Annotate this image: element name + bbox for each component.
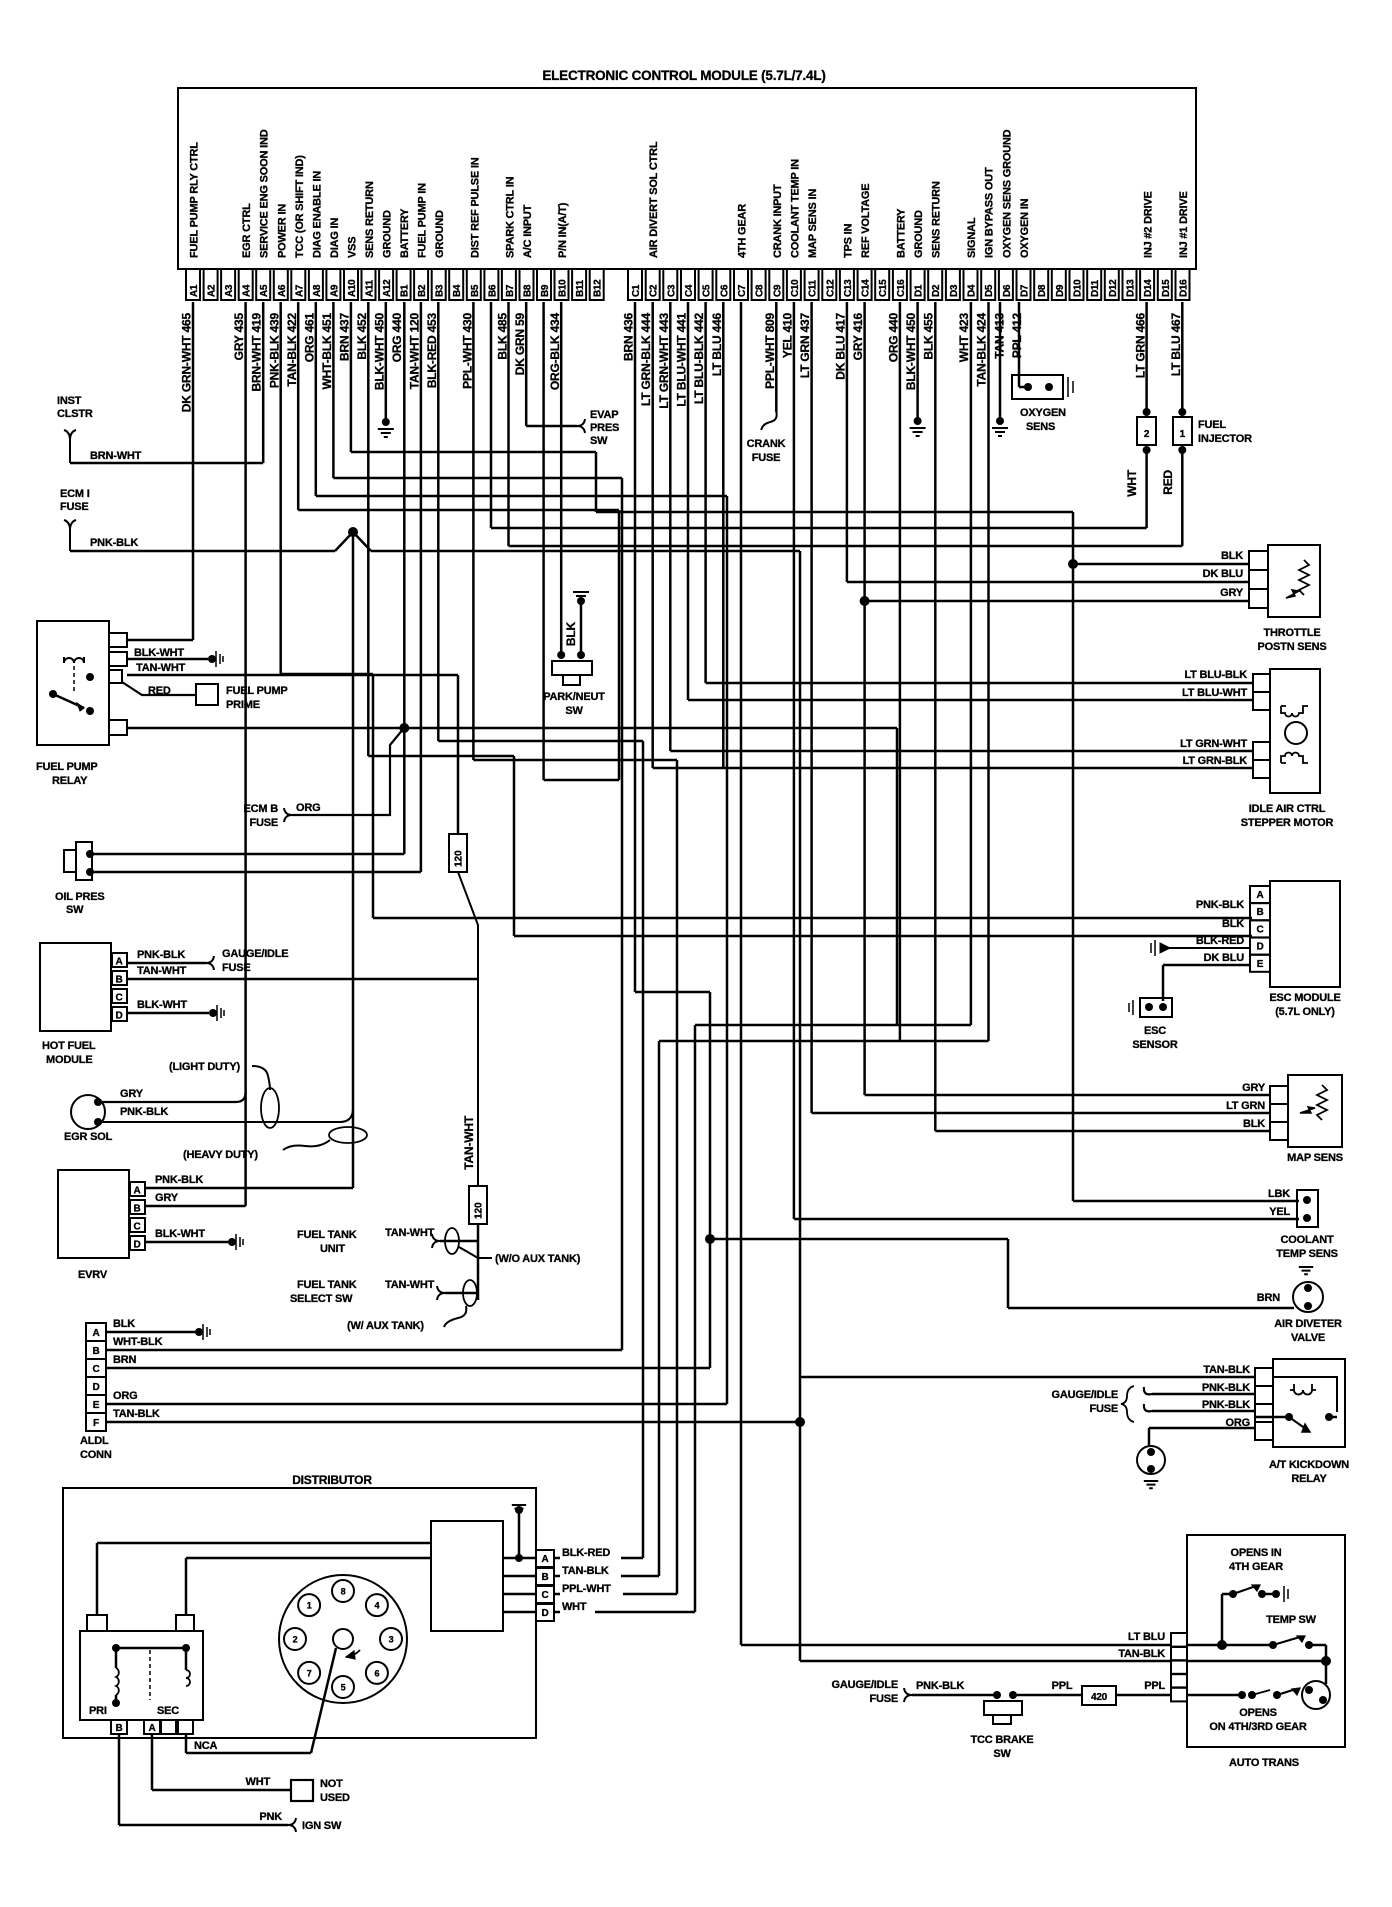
wire PNK-BLK from ECM I FUSE xyxy=(70,550,335,553)
node PNK-BLK junction xyxy=(348,527,358,537)
svg-text:C2: C2 xyxy=(649,284,660,297)
EVAP bracket xyxy=(577,419,585,433)
coolant temp sensor xyxy=(1297,1190,1318,1227)
svg-text:LT BLU-WHT 441: LT BLU-WHT 441 xyxy=(675,312,689,406)
svg-text:C: C xyxy=(134,1222,141,1233)
coil extra pins xyxy=(161,1720,176,1734)
svg-text:BRN 437: BRN 437 xyxy=(338,312,352,360)
distributor pins A-D with labels xyxy=(536,1550,554,1567)
4th3rd switch circle xyxy=(1302,1681,1330,1709)
svg-text:A4: A4 xyxy=(242,284,253,297)
wire relay pin1 to A1 xyxy=(127,639,193,642)
svg-text:BLK: BLK xyxy=(1222,918,1244,930)
svg-text:C7: C7 xyxy=(737,284,748,297)
svg-text:GROUND: GROUND xyxy=(913,210,925,258)
wire A8 net to ALDL E xyxy=(315,302,318,496)
ALDL connector J1 xyxy=(86,1323,106,1341)
IAC coil top xyxy=(1281,706,1308,717)
svg-text:DIAG ENABLE IN: DIAG ENABLE IN xyxy=(311,171,323,258)
svg-text:C: C xyxy=(1256,924,1263,935)
svg-text:GROUND: GROUND xyxy=(382,210,394,258)
svg-text:LT GRN-WHT: LT GRN-WHT xyxy=(1180,738,1247,750)
not used connector xyxy=(291,1780,313,1801)
wire B6 stub xyxy=(490,302,493,528)
svg-text:GRY: GRY xyxy=(1242,1082,1266,1094)
svg-text:B9: B9 xyxy=(540,284,551,297)
wire C13 TPS DK BLU xyxy=(846,302,849,582)
svg-text:ESC MODULE: ESC MODULE xyxy=(1269,992,1340,1004)
svg-text:GAUGE/IDLE: GAUGE/IDLE xyxy=(832,1679,898,1691)
svg-text:BATTERY: BATTERY xyxy=(895,208,907,258)
wire D7 to oxygen sensor xyxy=(1018,302,1021,387)
svg-text:D1: D1 xyxy=(914,284,925,297)
svg-text:BATTERY: BATTERY xyxy=(399,208,411,258)
wire B7 stub xyxy=(507,302,510,546)
svg-text:B11: B11 xyxy=(575,279,586,297)
svg-text:C12: C12 xyxy=(825,279,836,297)
wire w/o aux diag xyxy=(459,1247,492,1258)
svg-text:TAN-WHT: TAN-WHT xyxy=(462,1115,476,1170)
svg-text:D: D xyxy=(134,1240,141,1251)
wire hotfuel D to ground xyxy=(127,1012,209,1015)
svg-text:SENS RETURN: SENS RETURN xyxy=(931,181,943,258)
svg-text:LT BLU 467: LT BLU 467 xyxy=(1169,312,1183,376)
wire A9 DIAG net to ALDL B xyxy=(332,302,335,478)
svg-text:PNK-BLK: PNK-BLK xyxy=(137,949,185,961)
svg-text:LT BLU-BLK 442: LT BLU-BLK 442 xyxy=(692,312,706,404)
svg-text:1: 1 xyxy=(1180,429,1186,440)
svg-text:COOLANT TEMP IN: COOLANT TEMP IN xyxy=(789,159,801,258)
wire relay pin4 battery feed xyxy=(127,727,897,730)
fuel pump relay coil xyxy=(64,657,84,663)
svg-text:E: E xyxy=(93,1400,100,1411)
svg-text:C9: C9 xyxy=(772,284,783,297)
svg-text:POWER IN: POWER IN xyxy=(276,204,288,258)
kd ground connector xyxy=(1137,1446,1165,1474)
svg-text:TAN-BLK: TAN-BLK xyxy=(1203,1364,1250,1376)
wire relay pin2 to ground xyxy=(127,658,208,661)
svg-text:D2: D2 xyxy=(931,284,942,297)
wire kickdown TAN-BLK row xyxy=(800,1376,1255,1379)
wire TPS BLK row xyxy=(1073,563,1249,566)
wire relay pin3 TAN-WHT xyxy=(127,674,458,677)
svg-text:BLK-WHT: BLK-WHT xyxy=(137,999,187,1011)
svg-text:BLK-WHT 450: BLK-WHT 450 xyxy=(373,312,387,390)
svg-text:ORG: ORG xyxy=(113,1390,137,1402)
node TPS BLK junction xyxy=(1068,559,1078,569)
svg-text:ORG 440: ORG 440 xyxy=(886,312,900,362)
wire kd ORG xyxy=(1149,1427,1255,1430)
svg-text:D15: D15 xyxy=(1161,279,1172,297)
svg-text:PNK-BLK: PNK-BLK xyxy=(90,537,138,549)
svg-text:IDLE AIR CTRL: IDLE AIR CTRL xyxy=(1249,803,1326,815)
svg-text:D9: D9 xyxy=(1055,284,1066,297)
svg-text:ECM B: ECM B xyxy=(244,803,279,815)
MAP resistor xyxy=(1317,1085,1327,1120)
wire EVRV B GRY xyxy=(145,1205,246,1208)
svg-text:C: C xyxy=(541,1590,548,1601)
wire EGR PNK-BLK xyxy=(98,1110,353,1122)
svg-text:OXYGEN IN: OXYGEN IN xyxy=(1019,198,1031,258)
wire coil sec up xyxy=(185,1558,188,1615)
svg-text:BLK-RED: BLK-RED xyxy=(1196,935,1244,947)
svg-text:FUEL TANK: FUEL TANK xyxy=(297,1229,357,1241)
svg-text:WHT: WHT xyxy=(246,1776,271,1788)
svg-text:SELECT SW: SELECT SW xyxy=(290,1293,353,1305)
ignition coil box xyxy=(80,1631,203,1720)
wire D4 jog to distributor D xyxy=(970,302,973,1025)
wire PNK-BLK vertical to EVRV xyxy=(352,532,355,1188)
svg-text:B4: B4 xyxy=(452,284,463,297)
svg-text:PNK: PNK xyxy=(259,1811,282,1823)
svg-text:ORG: ORG xyxy=(296,802,320,814)
svg-text:C5: C5 xyxy=(702,284,713,297)
svg-text:NCA: NCA xyxy=(194,1740,217,1752)
svg-text:RELAY: RELAY xyxy=(1291,1473,1327,1485)
svg-text:D16: D16 xyxy=(1179,279,1190,297)
IAC coil bottom xyxy=(1281,753,1308,763)
svg-text:FUEL PUMP: FUEL PUMP xyxy=(226,685,288,697)
fuse 120 lower xyxy=(469,1186,487,1224)
IAC connector cells xyxy=(1253,674,1270,692)
wire A6 net to ESC B xyxy=(281,673,373,676)
svg-text:PNK-BLK: PNK-BLK xyxy=(1196,899,1244,911)
svg-text:A8: A8 xyxy=(312,284,323,297)
wire D14 to injector 2 xyxy=(1145,302,1148,412)
throttle sensor connector xyxy=(1249,551,1268,570)
distributor cap circle xyxy=(279,1575,407,1703)
wire A10 VSS net xyxy=(350,302,353,452)
wire C9 to CRANK FUSE xyxy=(775,302,778,412)
svg-text:TAN-WHT: TAN-WHT xyxy=(136,662,186,674)
svg-text:A: A xyxy=(541,1554,548,1565)
svg-text:LT GRN 437: LT GRN 437 xyxy=(798,312,812,378)
svg-text:C4: C4 xyxy=(684,284,695,297)
wire to fuel tank unit xyxy=(477,1224,480,1300)
svg-text:PPL 412: PPL 412 xyxy=(1010,312,1024,358)
svg-text:FUEL PUMP IN: FUEL PUMP IN xyxy=(417,183,429,258)
svg-text:(LIGHT DUTY): (LIGHT DUTY) xyxy=(169,1061,240,1073)
svg-text:IGN SW: IGN SW xyxy=(302,1820,342,1832)
wire tcc pnk-blk xyxy=(912,1694,995,1697)
svg-text:D: D xyxy=(92,1382,99,1393)
svg-text:LT BLU: LT BLU xyxy=(1128,1631,1165,1643)
svg-text:PNK-BLK: PNK-BLK xyxy=(916,1680,964,1692)
svg-text:IGN BYPASS OUT: IGN BYPASS OUT xyxy=(984,167,996,258)
wire coolant LBK row xyxy=(1073,1200,1299,1203)
svg-text:EVAP: EVAP xyxy=(590,409,618,421)
svg-text:SERVICE ENG SOON IND: SERVICE ENG SOON IND xyxy=(259,129,271,258)
svg-text:SENSOR: SENSOR xyxy=(1132,1039,1178,1051)
svg-text:YEL 410: YEL 410 xyxy=(780,312,794,358)
throttle sensor resistor xyxy=(1299,560,1309,595)
svg-text:D5: D5 xyxy=(984,284,995,297)
wire dist C out xyxy=(623,1593,677,1596)
svg-text:TPS IN: TPS IN xyxy=(842,223,854,258)
svg-text:MAP SENS IN: MAP SENS IN xyxy=(807,189,819,258)
svg-text:EGR CTRL: EGR CTRL xyxy=(241,203,253,258)
svg-text:REF VOLTAGE: REF VOLTAGE xyxy=(860,184,872,258)
svg-text:TEMP SW: TEMP SW xyxy=(1266,1614,1317,1626)
ign sw bracket xyxy=(288,1818,296,1832)
svg-text:C11: C11 xyxy=(808,279,819,297)
heavy duty squiggle xyxy=(283,1140,330,1150)
wire B10 to park neut sw xyxy=(560,302,563,655)
temp sw row xyxy=(1217,1640,1227,1650)
wire auto trans TAN-BLK row xyxy=(800,1660,1171,1663)
svg-text:A: A xyxy=(92,1328,99,1339)
svg-text:TAN-BLK: TAN-BLK xyxy=(562,1565,609,1577)
svg-text:120: 120 xyxy=(474,1202,485,1219)
svg-text:A1: A1 xyxy=(189,284,200,297)
svg-text:WHT: WHT xyxy=(1125,469,1139,497)
ftu oval xyxy=(445,1228,459,1254)
svg-text:MODULE: MODULE xyxy=(46,1054,92,1066)
svg-text:DK GRN-WHT 465: DK GRN-WHT 465 xyxy=(180,312,194,412)
svg-text:BLK-WHT: BLK-WHT xyxy=(155,1228,205,1240)
svg-text:TAN-WHT: TAN-WHT xyxy=(137,965,187,977)
EVRV pins xyxy=(130,1182,145,1196)
svg-text:BLK-WHT: BLK-WHT xyxy=(134,647,184,659)
MAP sensor box xyxy=(1288,1075,1342,1147)
svg-text:CRANK: CRANK xyxy=(747,438,786,450)
svg-text:OPENS: OPENS xyxy=(1239,1707,1277,1719)
wire C7 LT BLU to auto trans xyxy=(740,302,743,1645)
svg-text:D: D xyxy=(1256,942,1263,953)
svg-text:BLK: BLK xyxy=(1221,550,1243,562)
wire fuel tank unit xyxy=(440,1240,478,1243)
w aux squiggle xyxy=(444,1306,466,1327)
svg-text:ECM I: ECM I xyxy=(60,488,90,500)
fuel injector 2 xyxy=(1137,417,1156,445)
svg-text:420: 420 xyxy=(1091,1692,1108,1703)
svg-text:AIR DIVERT SOL CTRL: AIR DIVERT SOL CTRL xyxy=(648,141,660,258)
svg-text:FUEL PUMP RLY CTRL: FUEL PUMP RLY CTRL xyxy=(189,142,201,258)
fuel pump relay K1 box xyxy=(37,621,109,745)
svg-text:P/N IN(A/T): P/N IN(A/T) xyxy=(557,202,569,258)
svg-text:B: B xyxy=(92,1346,99,1357)
svg-text:B12: B12 xyxy=(593,279,604,297)
svg-text:A6: A6 xyxy=(277,284,288,297)
svg-text:HOT FUEL: HOT FUEL xyxy=(42,1040,96,1052)
svg-text:GAUGE/IDLE: GAUGE/IDLE xyxy=(1052,1389,1118,1401)
svg-text:SENS RETURN: SENS RETURN xyxy=(364,181,376,258)
wire relay feed drop xyxy=(896,728,899,1025)
svg-text:INJ #2 DRIVE: INJ #2 DRIVE xyxy=(1143,191,1155,258)
wire A4 GRY 435 down xyxy=(244,302,247,1206)
svg-text:FUSE: FUSE xyxy=(1089,1403,1118,1415)
svg-text:B: B xyxy=(115,1723,122,1734)
svg-text:WHT 423: WHT 423 xyxy=(957,312,971,362)
svg-text:B3: B3 xyxy=(435,284,446,297)
svg-text:BRN 436: BRN 436 xyxy=(622,312,636,360)
svg-text:TEMP SENS: TEMP SENS xyxy=(1276,1248,1338,1260)
svg-text:LBK: LBK xyxy=(1268,1188,1290,1200)
svg-text:BLK 452: BLK 452 xyxy=(355,312,369,359)
fuse 420 xyxy=(1082,1686,1116,1705)
fuel tank unit bracket xyxy=(432,1234,440,1248)
svg-text:E: E xyxy=(1257,959,1264,970)
wire PNK-BLK drop 800 xyxy=(799,551,802,1661)
wire D2 MAP BLK xyxy=(934,302,937,1131)
wire EGR GRY xyxy=(98,1092,246,1102)
svg-text:DISTRIBUTOR: DISTRIBUTOR xyxy=(292,1473,372,1487)
ESC sensor xyxy=(1140,998,1172,1017)
wire D1 ground stub xyxy=(916,302,919,418)
kd relay contacts xyxy=(1285,1413,1293,1421)
svg-text:B: B xyxy=(1256,907,1263,918)
svg-text:C16: C16 xyxy=(896,279,907,297)
distributor box xyxy=(63,1488,536,1738)
wire A5 SES to INST CLSTR xyxy=(70,462,263,465)
hot fuel module box xyxy=(40,943,111,1031)
svg-text:PRI: PRI xyxy=(89,1705,107,1717)
node C1 air diverter junction xyxy=(705,1234,715,1244)
coil secondary winding xyxy=(186,1670,190,1686)
svg-text:WHT-BLK 451: WHT-BLK 451 xyxy=(320,312,334,389)
svg-text:A/C INPUT: A/C INPUT xyxy=(522,204,534,258)
wire C3 IAC LT GRN-WHT xyxy=(669,302,672,751)
svg-text:TAN-BLK: TAN-BLK xyxy=(1118,1648,1165,1660)
svg-text:LT BLU-WHT: LT BLU-WHT xyxy=(1182,687,1247,699)
wire hotfuel A to gauge fuse xyxy=(127,962,206,965)
svg-text:ALDL: ALDL xyxy=(80,1435,109,1447)
svg-text:ORG 461: ORG 461 xyxy=(302,312,316,362)
svg-text:TAN-WHT: TAN-WHT xyxy=(385,1279,435,1291)
svg-text:SIGNAL: SIGNAL xyxy=(966,217,978,258)
air diverter valve xyxy=(1293,1282,1323,1312)
svg-text:TAN-WHT 120: TAN-WHT 120 xyxy=(408,312,422,389)
svg-text:CRANK INPUT: CRANK INPUT xyxy=(772,184,784,258)
svg-text:WHT-BLK: WHT-BLK xyxy=(113,1336,163,1348)
wire B3 jog to distributor A xyxy=(437,302,440,741)
throttle sensor box xyxy=(1268,545,1320,617)
wire D16 to injector 1 xyxy=(1181,302,1184,412)
wire C5 IAC LT BLU-BLK xyxy=(704,302,707,683)
svg-text:DIAG IN: DIAG IN xyxy=(329,218,341,258)
svg-text:DIST REF PULSE IN: DIST REF PULSE IN xyxy=(469,157,481,258)
svg-text:INJECTOR: INJECTOR xyxy=(1198,433,1252,445)
ECM B FUSE bracket xyxy=(284,808,292,822)
light duty squiggle xyxy=(252,1066,270,1090)
svg-text:TAN-WHT: TAN-WHT xyxy=(385,1227,435,1239)
svg-text:D12: D12 xyxy=(1108,279,1119,297)
svg-text:D4: D4 xyxy=(967,284,978,297)
svg-text:(W/O AUX TANK): (W/O AUX TANK) xyxy=(495,1253,581,1265)
coil pin A xyxy=(144,1720,160,1734)
svg-text:TAN-BLK: TAN-BLK xyxy=(113,1408,160,1420)
svg-text:DK BLU 417: DK BLU 417 xyxy=(833,312,847,379)
svg-text:BLK: BLK xyxy=(1243,1118,1265,1130)
svg-text:D13: D13 xyxy=(1126,279,1137,297)
svg-text:A12: A12 xyxy=(382,279,393,297)
svg-text:COOLANT: COOLANT xyxy=(1281,1234,1334,1246)
IAC motor box xyxy=(1270,669,1320,793)
svg-text:BRN-WHT: BRN-WHT xyxy=(90,450,142,462)
svg-text:PARK/NEUT: PARK/NEUT xyxy=(543,691,605,703)
svg-text:FUSE: FUSE xyxy=(752,452,781,464)
svg-text:A: A xyxy=(116,957,123,968)
svg-text:SW: SW xyxy=(590,435,608,447)
svg-text:SPARK CTRL IN: SPARK CTRL IN xyxy=(504,176,516,258)
svg-text:B: B xyxy=(116,975,123,986)
ESC connector pins xyxy=(1250,886,1270,903)
svg-text:CLSTR: CLSTR xyxy=(57,408,93,420)
wire MAP GRY row xyxy=(865,1094,1270,1097)
svg-text:A10: A10 xyxy=(347,279,358,297)
svg-text:PNK-BLK: PNK-BLK xyxy=(1202,1382,1250,1394)
fts oval xyxy=(463,1280,477,1306)
svg-text:C10: C10 xyxy=(790,279,801,297)
svg-text:USED: USED xyxy=(320,1792,350,1804)
wire ESC B PNK-BLK row xyxy=(373,917,1252,920)
svg-text:MAP SENS: MAP SENS xyxy=(1287,1152,1343,1164)
svg-text:GRY 416: GRY 416 xyxy=(851,312,865,360)
heavy duty oval xyxy=(329,1127,367,1143)
tan-blk inner row xyxy=(1187,1660,1326,1663)
wire B2 TAN-WHT 120 down xyxy=(420,302,423,872)
svg-text:FUEL TANK: FUEL TANK xyxy=(297,1279,357,1291)
svg-text:NOT: NOT xyxy=(320,1778,343,1790)
svg-text:F: F xyxy=(93,1418,99,1429)
wire ALDL F TAN-BLK xyxy=(106,1421,800,1424)
svg-text:OPENS IN: OPENS IN xyxy=(1231,1547,1282,1559)
wire relay RED to fuel pump prime xyxy=(122,682,196,695)
wire ALDL A to ground xyxy=(106,1331,195,1334)
svg-text:GRY: GRY xyxy=(155,1192,179,1204)
ECM module box U1 xyxy=(178,88,1196,269)
svg-text:UNIT: UNIT xyxy=(320,1243,345,1255)
gauge fuse brace xyxy=(1121,1386,1134,1422)
svg-text:BLK: BLK xyxy=(564,621,578,646)
svg-text:A2: A2 xyxy=(207,284,218,297)
svg-text:C6: C6 xyxy=(719,284,730,297)
svg-text:120: 120 xyxy=(454,850,465,867)
svg-text:OXYGEN SENS GROUND: OXYGEN SENS GROUND xyxy=(1001,129,1013,258)
svg-text:D: D xyxy=(116,1011,123,1022)
svg-text:1: 1 xyxy=(307,1601,312,1611)
4th gear switch xyxy=(1229,1590,1237,1598)
fuel pump relay connector tabs xyxy=(109,633,127,647)
wire to air diverter valve xyxy=(710,1238,1008,1241)
wire B5 jog to distributor C xyxy=(472,302,475,760)
fuel injector 1 xyxy=(1173,417,1192,445)
svg-text:A: A xyxy=(134,1186,141,1197)
svg-text:SENS: SENS xyxy=(1026,421,1055,433)
svg-text:PRIME: PRIME xyxy=(226,699,260,711)
wire fuel tank select xyxy=(445,1292,478,1295)
svg-text:FUSE: FUSE xyxy=(869,1693,898,1705)
svg-text:LT GRN-WHT 443: LT GRN-WHT 443 xyxy=(657,312,671,408)
wire EVRV A PNK-BLK xyxy=(145,1187,353,1190)
wire fuse diag xyxy=(458,872,478,1186)
svg-text:C15: C15 xyxy=(878,279,889,297)
wire tcc to fuse xyxy=(1013,1694,1082,1697)
svg-text:D: D xyxy=(541,1608,548,1619)
svg-text:B: B xyxy=(134,1204,141,1215)
svg-text:YEL: YEL xyxy=(1269,1206,1290,1218)
wire D5 jog to distributor B and kickdown xyxy=(987,302,990,1041)
oil pres sw symbol xyxy=(64,850,76,872)
TCC brake sw xyxy=(993,1691,1001,1699)
svg-text:A: A xyxy=(148,1723,155,1734)
wire C16 battery stub xyxy=(899,302,902,1041)
svg-text:BLK-RED: BLK-RED xyxy=(562,1547,610,1559)
svg-text:SW: SW xyxy=(565,705,583,717)
svg-text:2: 2 xyxy=(293,1635,298,1645)
wire B1 ORG 440 down to oil pres xyxy=(403,302,406,854)
wire ALDL B WHT-BLK xyxy=(106,1349,622,1352)
